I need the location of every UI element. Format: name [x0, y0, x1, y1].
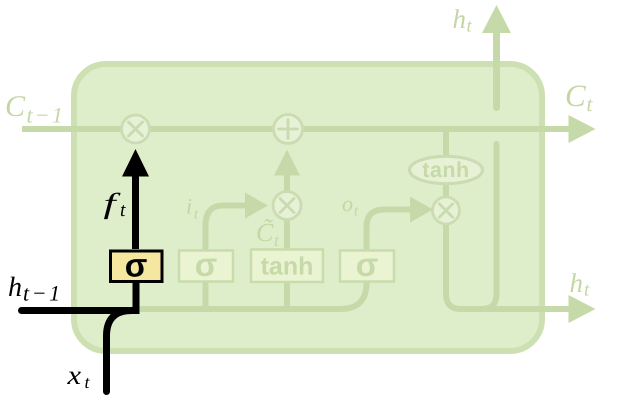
- svg-text:o: o: [342, 191, 353, 216]
- svg-text:x: x: [66, 360, 81, 390]
- svg-text:h: h: [453, 4, 467, 34]
- svg-text:tanh: tanh: [422, 158, 469, 182]
- svg-text:σ: σ: [356, 246, 379, 283]
- svg-text:i: i: [186, 194, 192, 219]
- svg-text:t: t: [584, 280, 590, 301]
- svg-text:t: t: [467, 17, 473, 37]
- svg-text:σ: σ: [195, 246, 218, 283]
- svg-text:h: h: [8, 272, 22, 303]
- svg-text:tanh: tanh: [261, 253, 314, 281]
- svg-text:t−1: t−1: [27, 103, 66, 128]
- svg-text:C: C: [5, 90, 26, 123]
- svg-text:t−1: t−1: [23, 281, 63, 306]
- svg-text:C̃: C̃: [256, 218, 274, 247]
- svg-text:t: t: [120, 200, 126, 221]
- svg-text:h: h: [570, 268, 584, 298]
- svg-text:C: C: [565, 78, 586, 113]
- svg-text:σ: σ: [125, 247, 148, 284]
